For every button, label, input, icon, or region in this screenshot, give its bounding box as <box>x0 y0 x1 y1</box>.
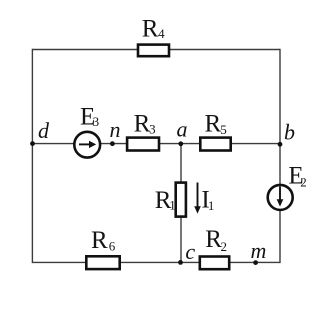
svg-text:3: 3 <box>149 121 156 136</box>
source E2 <box>268 163 307 210</box>
svg-text:n: n <box>110 117 121 142</box>
source E3 <box>74 104 100 158</box>
wire middle horizontal (d to b through n, a) <box>32 143 280 145</box>
svg-text:m: m <box>251 238 267 263</box>
svg-text:2: 2 <box>300 175 307 190</box>
resistor R5 <box>200 111 230 151</box>
wire top (d-corner to b-corner) <box>32 49 280 51</box>
resistor R2 <box>200 226 229 269</box>
current arrow I1 <box>194 183 214 214</box>
svg-text:R: R <box>142 16 159 43</box>
node a <box>177 117 188 147</box>
wire bottom (bottom-left corner to bottom-right corner) <box>32 261 280 263</box>
svg-text:1: 1 <box>208 198 215 213</box>
svg-text:R: R <box>91 227 108 254</box>
svg-text:c: c <box>185 239 195 264</box>
wire vertical branch (a down to c) <box>180 144 182 263</box>
svg-text:R: R <box>134 111 151 138</box>
svg-text:a: a <box>177 117 188 142</box>
node m <box>251 238 267 265</box>
resistor R3 <box>127 111 159 151</box>
svg-text:b: b <box>284 120 295 145</box>
resistor R6 <box>86 227 119 269</box>
svg-text:4: 4 <box>158 26 165 41</box>
svg-text:2: 2 <box>221 239 228 254</box>
wire left (top-left corner down to bottom-left corner) <box>31 49 33 263</box>
wire right (top-right corner down to bottom-right corner) <box>279 49 281 263</box>
node c <box>178 239 195 265</box>
svg-text:6: 6 <box>109 238 116 253</box>
node n <box>110 117 121 146</box>
svg-text:5: 5 <box>220 122 227 137</box>
node b <box>278 120 295 147</box>
resistor R4 <box>138 16 169 57</box>
svg-text:d: d <box>38 118 50 143</box>
svg-text:1: 1 <box>169 197 176 212</box>
svg-text:R: R <box>205 111 222 138</box>
resistor R1 (vertical) <box>155 183 186 217</box>
svg-text:3: 3 <box>93 114 100 129</box>
node d <box>30 118 50 146</box>
